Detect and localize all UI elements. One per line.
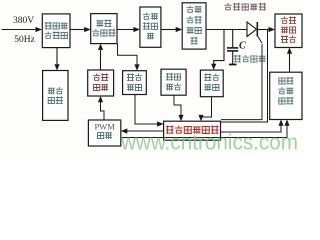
wire: overcurrent protection down to control logic <box>135 95 158 125</box>
wire: A to B <box>70 29 85 31</box>
wire: mains input into input rectifier <box>2 29 37 31</box>
block J: overvoltage protection (guo ya bao hu) <box>200 70 223 97</box>
block H: overcurrent protection (guo liu bao hu) <box>123 71 147 95</box>
block D: HF high-voltage rectifier bridge (gao pin gao ya zheng liu qiao) <box>182 3 206 49</box>
thyristor SCR symbol <box>247 22 262 43</box>
block C: high frequency transformer (gao pin bian ya qi) <box>140 7 161 47</box>
svg-text:www.cntronics.com: www.cntronics.com <box>120 130 298 155</box>
wire: control logic to PWM <box>127 130 164 132</box>
wire: inverter to overcurrent protection <box>118 44 138 65</box>
label: energy storage capacitor (chu neng dian rong) <box>234 55 266 63</box>
wire: B to C <box>117 29 134 31</box>
wire: HV bus drop to overvoltage protection <box>214 30 224 65</box>
svg-text:380V: 380V <box>13 16 34 26</box>
block B: bridge inverter (qiao shi ni bian qi) <box>91 14 117 44</box>
svg-text:50Hz: 50Hz <box>14 35 35 45</box>
svg-text:C: C <box>239 41 246 52</box>
block L: PWM circuit (PWM dian lu) <box>88 120 120 146</box>
wire: overtemperature protection down to control logic <box>174 95 181 115</box>
wire: overvoltage protection down to control logic <box>201 97 212 117</box>
svg-text:PWM: PWM <box>94 122 115 132</box>
wire: thyristor cathode to xenon lamp <box>258 29 269 31</box>
block F: auxiliary power (fu zhu dian yuan) <box>43 71 68 121</box>
block A: input rectifier circuit (shu ru zheng liu dian lu) <box>42 14 70 48</box>
wire: drive circuit up to bridge inverter <box>100 50 102 70</box>
wire: C to D <box>161 29 177 31</box>
block M: control logic circuit (kong zhi luo ji dian lu) <box>164 121 221 140</box>
thyristor gate lead <box>257 36 262 44</box>
wire: lamp feedback line down to control logic <box>221 30 268 123</box>
capacitor C (energy storage) <box>232 30 234 48</box>
wire: PWM to drive circuit <box>101 102 105 120</box>
block G: drive circuit (qu dong dian lu) <box>88 70 114 96</box>
wire: trigger circuit up to lamp <box>289 54 291 73</box>
block E: high-voltage pulse xenon lamp (gao ya mai chong xian deng) <box>275 14 302 48</box>
block I: overtemperature protection (guo wen bao hu) <box>161 69 186 95</box>
wire: gate line down to control logic <box>221 44 262 120</box>
wire: D to thyristor anode (HV bus) <box>206 29 247 31</box>
wire: A down to auxiliary supply <box>56 48 58 65</box>
wire: bottom bus PWM area to trigger circuit (lower) <box>121 126 287 138</box>
label: discharge thyristor (fang dian jing zha guan) <box>225 3 266 11</box>
wire: control logic to trigger circuit (upper) <box>221 126 282 133</box>
block K: pre-ignition trigger circuit (yu ran chu fa dian lu) <box>270 72 302 119</box>
